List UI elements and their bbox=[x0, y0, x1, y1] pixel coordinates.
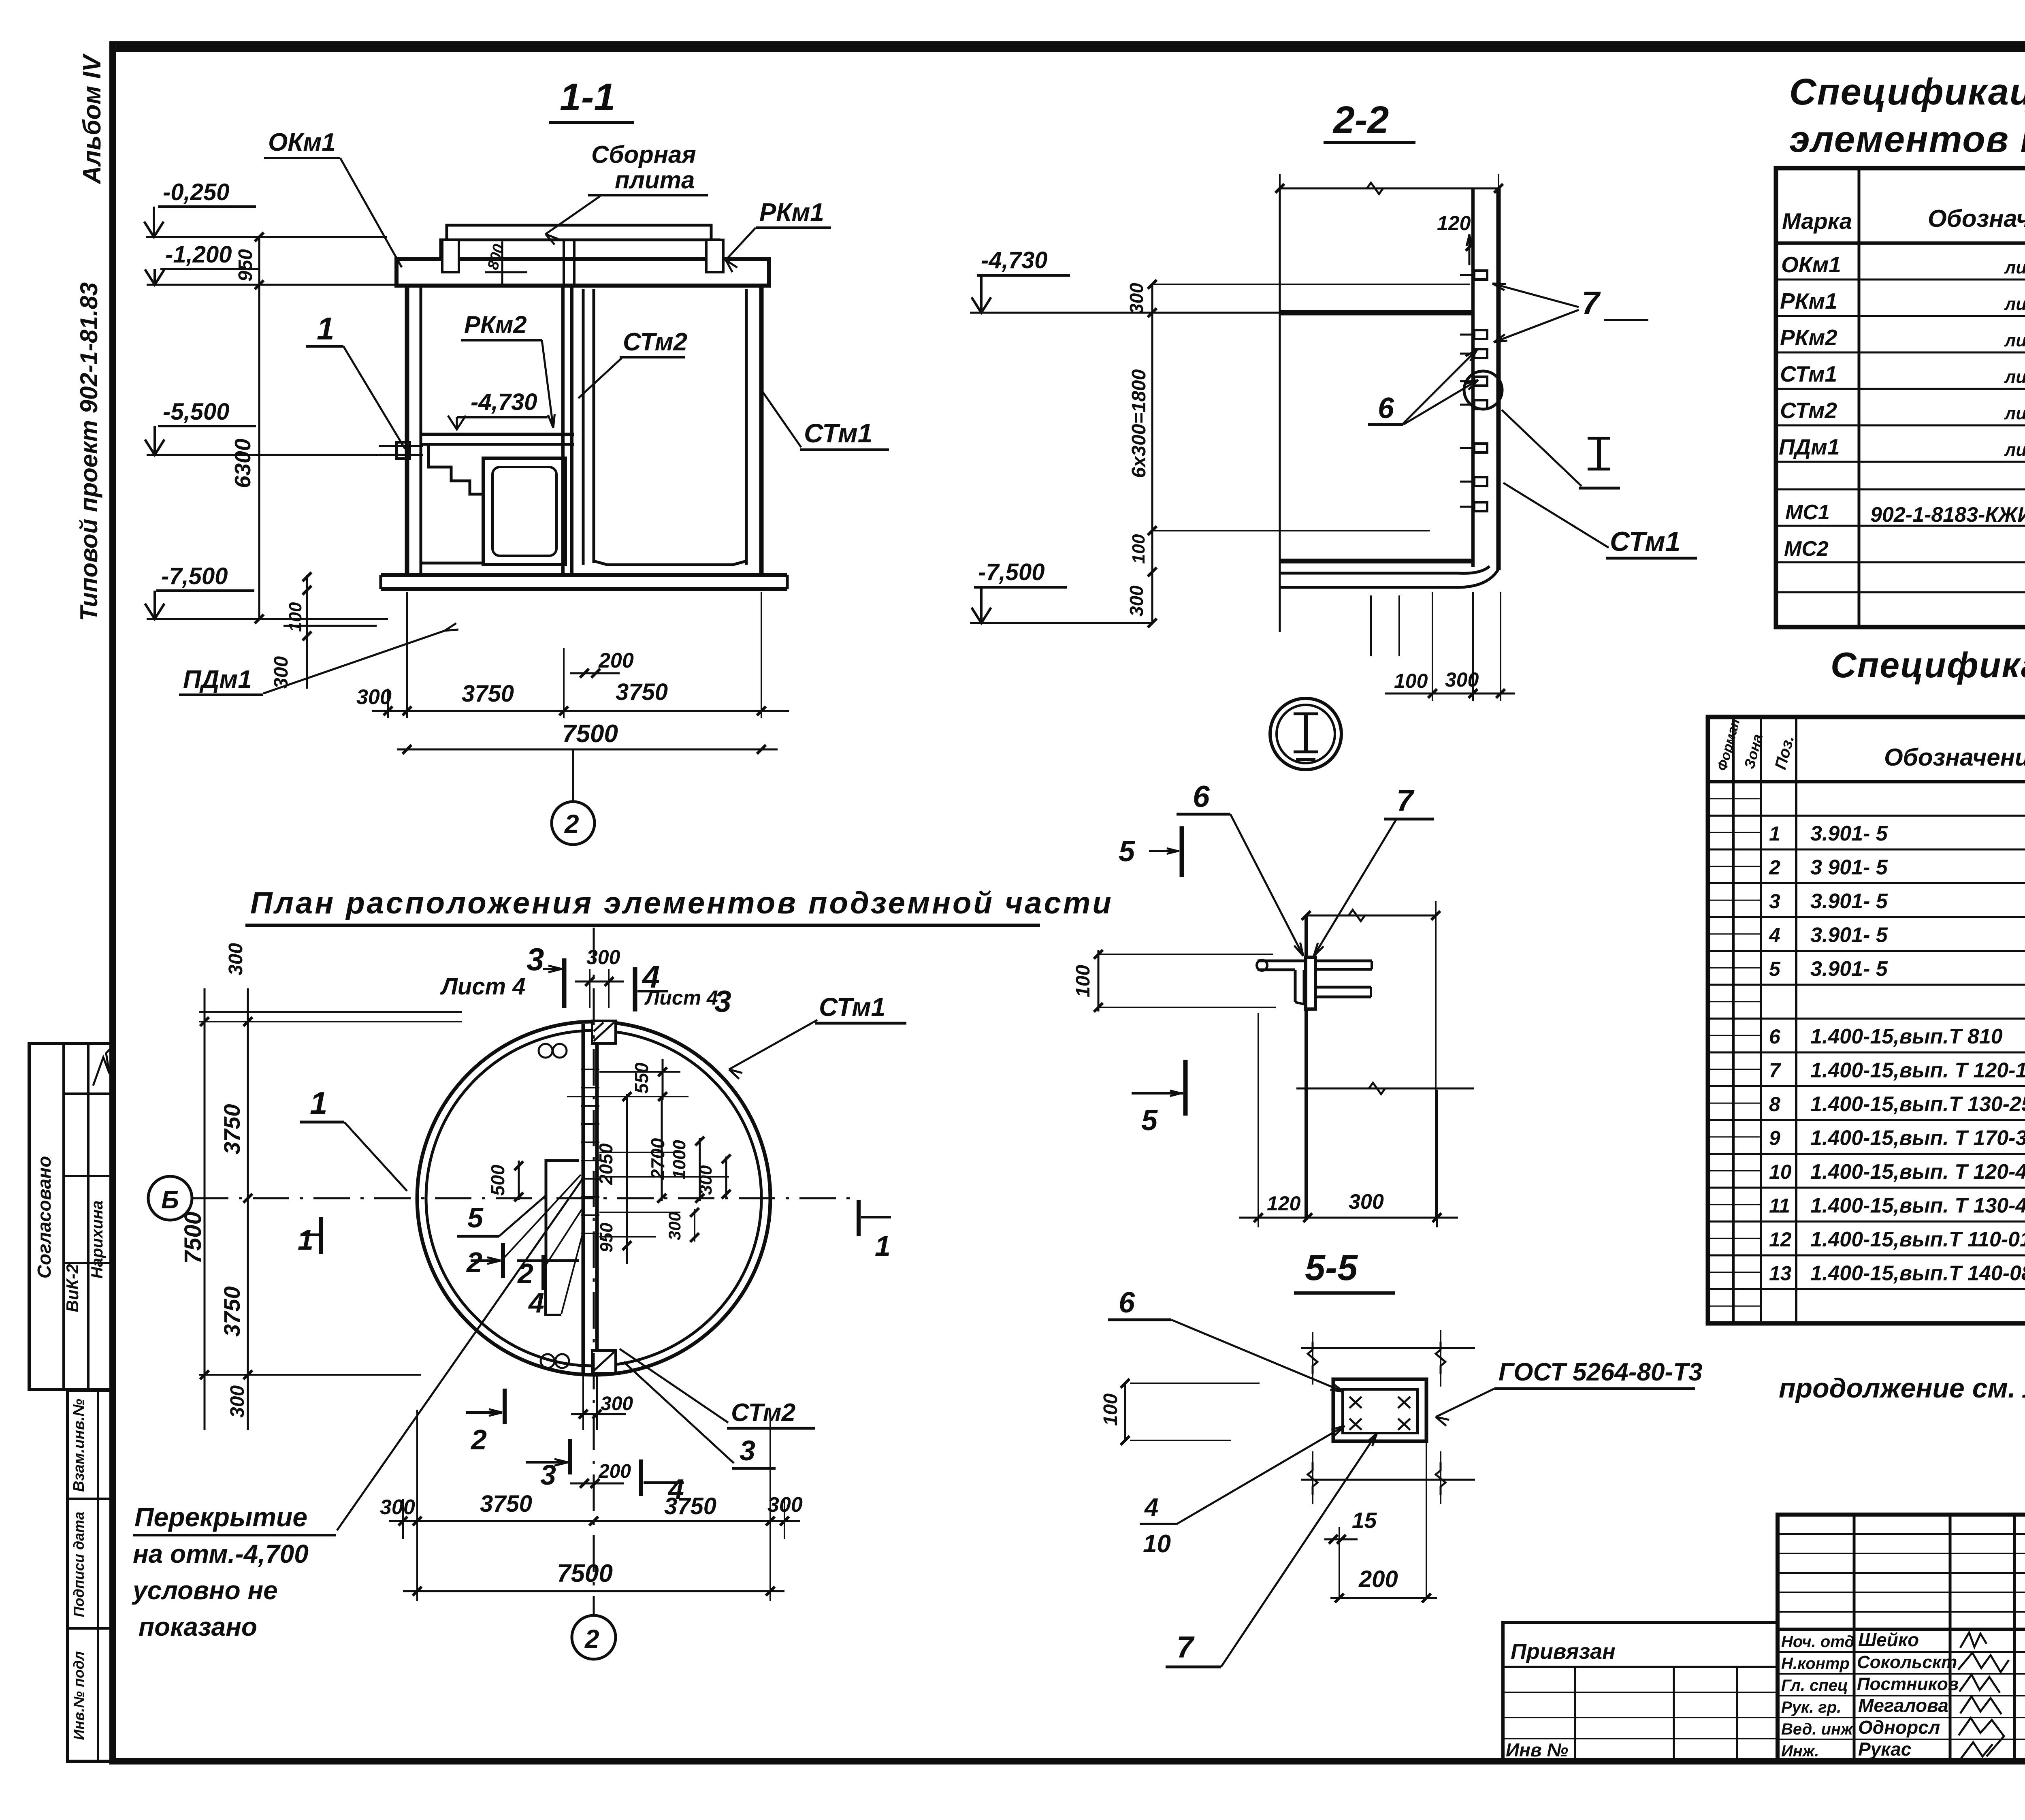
vertical dim 100/300 bottom left bbox=[306, 575, 308, 689]
svg-text:Вед. инж: Вед. инж bbox=[1781, 1720, 1854, 1738]
svg-text:300: 300 bbox=[1349, 1190, 1384, 1214]
svg-text:300: 300 bbox=[586, 946, 620, 969]
svg-text:Обозначение: Обозначение bbox=[1884, 744, 2025, 771]
svg-text:Типовой проект 902-1-81.83: Типовой проект 902-1-81.83 bbox=[75, 282, 102, 621]
svg-text:ОКм1: ОКм1 bbox=[1781, 252, 1841, 277]
svg-text:лист: лист bbox=[2004, 258, 2025, 277]
svg-text:300: 300 bbox=[356, 685, 392, 709]
svg-text:2050: 2050 bbox=[595, 1143, 616, 1185]
plan left dim 3750x2 vertical bbox=[247, 988, 249, 1430]
svg-text:плита: плита bbox=[615, 166, 695, 194]
monolithic ring slab ОКм1/РКм1 bbox=[396, 259, 769, 286]
svg-text:Инж.: Инж. bbox=[1781, 1742, 1819, 1760]
svg-text:200: 200 bbox=[598, 1461, 631, 1482]
svg-text:условно не: условно не bbox=[132, 1576, 278, 1605]
svg-text:8: 8 bbox=[1769, 1093, 1780, 1116]
svg-text:СТм2: СТм2 bbox=[623, 328, 687, 356]
svg-text:1.400-15,вып. Т 120-14: 1.400-15,вып. Т 120-14 bbox=[1810, 1059, 2025, 1082]
plan circle outer wall bbox=[417, 1022, 770, 1375]
svg-text:РКм1: РКм1 bbox=[1780, 288, 1837, 314]
2-2 vertical dim line bbox=[1151, 284, 1153, 623]
2-2 bracket detail circle bbox=[1464, 371, 1502, 409]
svg-text:Привязан: Привязан bbox=[1511, 1639, 1616, 1664]
svg-text:3.901- 5: 3.901- 5 bbox=[1810, 924, 1888, 947]
plan interior dim 550 bbox=[662, 1059, 664, 1100]
svg-text:300: 300 bbox=[601, 1393, 633, 1415]
svg-text:ОКм1: ОКм1 bbox=[268, 128, 336, 156]
5-5 lower frame lines with breaks bbox=[1301, 1479, 1475, 1481]
svg-text:3.901- 5: 3.901- 5 bbox=[1810, 822, 1888, 845]
svg-text:100: 100 bbox=[1394, 670, 1428, 692]
dim 7500 bbox=[397, 749, 778, 751]
right chamber lining bbox=[582, 289, 585, 565]
svg-text:Мегалова: Мегалова bbox=[1858, 1695, 1948, 1716]
svg-text:Согласовано: Согласовано bbox=[34, 1156, 55, 1278]
svg-text:1: 1 bbox=[875, 1230, 891, 1262]
svg-text:6: 6 bbox=[1378, 392, 1394, 425]
plan circle inner wall bbox=[426, 1031, 761, 1366]
svg-text:1: 1 bbox=[298, 1224, 313, 1256]
title block left small rows bbox=[1778, 1533, 2025, 1535]
slab notch right bbox=[706, 240, 723, 272]
plan ledge wall in left chamber bbox=[546, 1161, 579, 1261]
svg-text:2: 2 bbox=[1769, 856, 1780, 879]
svg-text:4: 4 bbox=[528, 1287, 544, 1319]
dim 200 partition bbox=[570, 672, 620, 674]
svg-text:300: 300 bbox=[227, 1385, 248, 1418]
plan dim chain 300 3750 3750 300 bbox=[389, 1520, 800, 1522]
svg-text:Однорсл: Однорсл bbox=[1858, 1717, 1940, 1738]
svg-text:9: 9 bbox=[1769, 1127, 1780, 1150]
svg-text:5: 5 bbox=[1119, 835, 1135, 868]
svg-text:6х300=1800: 6х300=1800 bbox=[1128, 369, 1150, 478]
bottom dim extension lines 1-1 bbox=[406, 592, 408, 718]
pipe sleeve pos.1 through left wall bbox=[379, 445, 423, 447]
svg-text:Б: Б bbox=[161, 1186, 179, 1214]
title block outer bbox=[1778, 1515, 2025, 1761]
svg-text:5: 5 bbox=[1141, 1104, 1158, 1137]
svg-text:2: 2 bbox=[470, 1424, 487, 1455]
svg-text:10: 10 bbox=[1769, 1161, 1792, 1183]
svg-text:СТм1: СТм1 bbox=[804, 418, 872, 448]
svg-text:550: 550 bbox=[631, 1063, 652, 1094]
svg-text:Ноч. отд: Ноч. отд bbox=[1781, 1633, 1854, 1651]
svg-text:Постников: Постников bbox=[1857, 1674, 1959, 1694]
plan partition hatch top bbox=[592, 1021, 616, 1043]
svg-text:Рук. гр.: Рук. гр. bbox=[1781, 1698, 1841, 1716]
svg-text:4: 4 bbox=[1769, 924, 1780, 947]
detail I title circle bbox=[1270, 698, 1341, 770]
svg-text:5: 5 bbox=[1769, 958, 1781, 980]
svg-text:3: 3 bbox=[714, 984, 731, 1018]
wall right СТм1 outer bbox=[759, 286, 764, 577]
plan interior dim 1000 bbox=[699, 1138, 701, 1201]
svg-text:300: 300 bbox=[767, 1493, 803, 1517]
svg-text:-4,730: -4,730 bbox=[981, 247, 1047, 273]
svg-text:300: 300 bbox=[225, 943, 247, 975]
svg-text:Инв.№ подл: Инв.№ подл bbox=[70, 1651, 87, 1740]
title block full line bbox=[1778, 1628, 2025, 1631]
slab notch left bbox=[442, 240, 459, 272]
detail I top dim line bbox=[1306, 915, 1436, 917]
svg-text:6: 6 bbox=[1119, 1287, 1135, 1319]
detail I bottom line with break bbox=[1296, 1088, 1474, 1090]
svg-text:2700: 2700 bbox=[647, 1138, 668, 1180]
svg-text:1.400-15,вып. Т 170-32: 1.400-15,вып. Т 170-32 bbox=[1810, 1127, 2025, 1150]
plan left dim 7500 vertical bbox=[204, 988, 206, 1430]
svg-text:СТм1: СТм1 bbox=[1610, 526, 1680, 557]
svg-text:1000: 1000 bbox=[669, 1140, 689, 1180]
svg-text:РКм2: РКм2 bbox=[1780, 325, 1837, 350]
svg-text:2: 2 bbox=[584, 1624, 599, 1654]
svg-text:3750: 3750 bbox=[616, 679, 668, 705]
svg-text:ГОСТ 5264-80-Т3: ГОСТ 5264-80-Т3 bbox=[1498, 1358, 1703, 1386]
title block signatures bbox=[1960, 1632, 1987, 1648]
right chamber floor bbox=[594, 549, 746, 565]
plan interior dim 500 bbox=[518, 1161, 520, 1200]
plan leaders to partition rungs bbox=[503, 1175, 581, 1259]
svg-text:6: 6 bbox=[1769, 1025, 1781, 1048]
dim 800 slab thickness bbox=[501, 241, 503, 284]
left chamber floor bbox=[421, 562, 483, 565]
svg-text:100: 100 bbox=[1100, 1393, 1121, 1426]
svg-text:элементов подземной части: элементов подземной части bbox=[1789, 119, 2025, 160]
svg-text:-0,250: -0,250 bbox=[163, 179, 229, 205]
svg-text:1.400-15,вып.Т 110-01: 1.400-15,вып.Т 110-01 bbox=[1810, 1228, 2025, 1251]
svg-text:13: 13 bbox=[1769, 1262, 1792, 1285]
plan dim 7500 bbox=[403, 1590, 784, 1592]
svg-text:3: 3 bbox=[540, 1459, 556, 1491]
plan interior dim 300 right bbox=[725, 1156, 727, 1197]
svg-text:902-1-8183-КЖИ-МС1: 902-1-8183-КЖИ-МС1 bbox=[1870, 503, 2025, 527]
plan leader from Перекрытие note bbox=[337, 1178, 583, 1530]
svg-text:План расположения элементов п: План расположения элементов подземной ча… bbox=[250, 886, 1113, 920]
svg-text:7500: 7500 bbox=[557, 1560, 613, 1587]
svg-text:100: 100 bbox=[1072, 965, 1094, 997]
5-5 dim 200 bbox=[1339, 1527, 1340, 1597]
svg-text:2: 2 bbox=[466, 1246, 482, 1278]
svg-text:Альбом IV: Альбом IV bbox=[78, 53, 106, 185]
detail I anchor plate bbox=[1306, 957, 1315, 1009]
svg-text:Лист 4: Лист 4 bbox=[440, 973, 525, 1000]
svg-text:Перекрытие: Перекрытие bbox=[134, 1502, 307, 1532]
plan interior dim 300 small bbox=[694, 1209, 695, 1242]
svg-text:5: 5 bbox=[467, 1202, 484, 1233]
detail I wall line bbox=[1305, 915, 1308, 1218]
svg-text:4: 4 bbox=[1144, 1494, 1158, 1521]
dim chain 300 3750 3750 bbox=[372, 710, 789, 712]
wall right inner lining bbox=[745, 289, 748, 565]
svg-text:3 901- 5: 3 901- 5 bbox=[1810, 856, 1888, 879]
2-2 ext lines below floor bbox=[1370, 595, 1372, 656]
svg-text:СТм2: СТм2 bbox=[1780, 398, 1837, 423]
svg-text:ВиК-2: ВиК-2 bbox=[63, 1264, 82, 1312]
plan anchor loops top bbox=[539, 1044, 552, 1058]
svg-text:-5,500: -5,500 bbox=[163, 399, 229, 425]
bottom plate ПДм1 bbox=[381, 573, 787, 577]
svg-text:3: 3 bbox=[1769, 890, 1780, 913]
svg-text:300: 300 bbox=[380, 1496, 415, 1519]
svg-text:Н.контр: Н.контр bbox=[1781, 1655, 1850, 1673]
svg-text:7: 7 bbox=[1769, 1059, 1781, 1082]
2-2 top dim line with break bbox=[1280, 188, 1498, 190]
plan interior dim 950 bbox=[626, 1246, 628, 1264]
svg-text:РКм1: РКм1 bbox=[759, 198, 824, 226]
plan interior dim 2050 bbox=[626, 1094, 628, 1250]
svg-text:Подписи дата: Подписи дата bbox=[70, 1512, 87, 1617]
svg-text:300: 300 bbox=[696, 1165, 716, 1195]
title block role rows bbox=[1778, 1651, 2025, 1653]
wall left СТм1 outer bbox=[405, 286, 409, 577]
detail mark I of 2-2 bbox=[1597, 438, 1601, 469]
svg-text:1.400-15,вып.Т 130-25: 1.400-15,вып.Т 130-25 bbox=[1810, 1092, 2025, 1116]
plan axis circle 2 bbox=[572, 1615, 616, 1659]
svg-text:на отм.-4,700: на отм.-4,700 bbox=[133, 1539, 309, 1568]
svg-text:1.400-15,вып. Т 120-45: 1.400-15,вып. Т 120-45 bbox=[1810, 1160, 2025, 1184]
detail I rod elbow bbox=[1294, 970, 1297, 1002]
svg-text:1.400-15,вып.Т 810: 1.400-15,вып.Т 810 bbox=[1810, 1025, 2003, 1048]
plan partition hatch bottom bbox=[592, 1351, 616, 1373]
svg-text:7500: 7500 bbox=[180, 1212, 206, 1264]
2-2 wall СТм1 outer line bbox=[1496, 188, 1501, 570]
svg-text:200: 200 bbox=[598, 649, 634, 672]
svg-text:лист: лист bbox=[2004, 367, 2025, 387]
svg-text:7: 7 bbox=[1396, 783, 1415, 817]
wall left inner lining bbox=[420, 286, 422, 575]
svg-text:6: 6 bbox=[1193, 779, 1210, 813]
svg-text:300: 300 bbox=[665, 1212, 684, 1240]
sump box inner bbox=[492, 467, 556, 556]
vertical dim line 950/6300 bbox=[258, 237, 260, 619]
plan leaders to СТм2 bbox=[620, 1349, 728, 1423]
plan partition rungs bbox=[581, 1069, 599, 1070]
5-5 channel outer bbox=[1333, 1379, 1426, 1441]
top slab upper band bbox=[441, 240, 719, 259]
svg-text:300: 300 bbox=[1126, 585, 1147, 617]
svg-text:100: 100 bbox=[286, 602, 305, 632]
svg-text:1.400-15,вып. Т 130-46: 1.400-15,вып. Т 130-46 bbox=[1810, 1194, 2025, 1218]
svg-text:2-2: 2-2 bbox=[1332, 98, 1389, 141]
svg-text:лист: лист bbox=[2004, 440, 2025, 460]
svg-text:300: 300 bbox=[1126, 283, 1147, 314]
svg-text:Нарихина: Нарихина bbox=[88, 1200, 106, 1278]
svg-text:лист: лист bbox=[2004, 294, 2025, 314]
svg-text:Взам.инв.№: Взам.инв.№ bbox=[70, 1399, 87, 1492]
svg-text:100: 100 bbox=[1129, 534, 1149, 564]
plan anchor loops bottom bbox=[541, 1354, 554, 1368]
detail I prongs bbox=[1315, 960, 1372, 962]
svg-text:-7,500: -7,500 bbox=[978, 559, 1044, 585]
svg-text:1-1: 1-1 bbox=[560, 76, 615, 119]
plan ext lines top/bottom bbox=[199, 1021, 462, 1022]
svg-text:-7,500: -7,500 bbox=[161, 563, 228, 589]
svg-text:Спецификация стен СТм1, СТм: Спецификация стен СТм1, СТм2 bbox=[1831, 645, 2025, 685]
svg-text:3.901- 5: 3.901- 5 bbox=[1810, 957, 1888, 981]
detail I right ext line bbox=[1435, 901, 1437, 1218]
svg-text:3750: 3750 bbox=[664, 1493, 716, 1519]
plan vertical axis bbox=[593, 928, 595, 1614]
svg-text:2: 2 bbox=[564, 809, 579, 839]
column axis circle 2 of section 1-1 bbox=[572, 749, 574, 801]
svg-text:лист: лист bbox=[2004, 331, 2025, 350]
precast slab (Сборная плита) bbox=[447, 225, 711, 240]
svg-text:Сборная: Сборная bbox=[591, 141, 696, 168]
svg-text:1: 1 bbox=[310, 1085, 327, 1121]
svg-text:120: 120 bbox=[1437, 212, 1471, 235]
svg-text:Шейко: Шейко bbox=[1858, 1629, 1919, 1650]
2-2 bottom dims 100 300 bbox=[1432, 592, 1433, 701]
Привязан box bbox=[1503, 1622, 1778, 1761]
table 2 grid bbox=[1708, 717, 2025, 1323]
svg-text:Гл. спец: Гл. спец bbox=[1781, 1677, 1848, 1694]
stamp signature squiggle bbox=[93, 1047, 112, 1086]
svg-text:3750: 3750 bbox=[462, 681, 514, 707]
svg-text:10: 10 bbox=[1143, 1530, 1171, 1558]
svg-text:7500: 7500 bbox=[562, 720, 618, 748]
stamp Согласовано box bbox=[29, 1043, 113, 1389]
svg-text:продолжение см. лист 7: продолжение см. лист 7 bbox=[1779, 1373, 2025, 1404]
svg-text:СТм1: СТм1 bbox=[1780, 361, 1837, 386]
svg-text:6300: 6300 bbox=[230, 438, 255, 488]
svg-text:Марка: Марка bbox=[1782, 208, 1852, 234]
svg-text:11: 11 bbox=[1769, 1195, 1790, 1217]
title block vertical lines bbox=[1853, 1515, 1856, 1761]
svg-text:15: 15 bbox=[1352, 1508, 1377, 1533]
svg-text:ПДм1: ПДм1 bbox=[1779, 434, 1840, 459]
svg-text:3750: 3750 bbox=[219, 1286, 245, 1337]
detail I bottom dims 120 300 bbox=[1258, 1013, 1259, 1227]
svg-text:200: 200 bbox=[1358, 1566, 1398, 1592]
svg-text:Рукас: Рукас bbox=[1858, 1739, 1911, 1760]
2-2 left edge line bbox=[1279, 188, 1281, 632]
svg-text:5-5: 5-5 bbox=[1305, 1248, 1358, 1288]
sump box outer bbox=[483, 458, 565, 565]
2-2 bottom slab lines bbox=[1280, 572, 1458, 575]
svg-text:Инв №: Инв № bbox=[1506, 1739, 1568, 1760]
pit steps bbox=[428, 444, 483, 494]
table 1 grid bbox=[1776, 168, 2025, 627]
svg-text:500: 500 bbox=[487, 1165, 508, 1196]
table 2 half-row lines in narrow columns bbox=[1708, 798, 1761, 799]
svg-text:Обозначение: Обозначение bbox=[1928, 205, 2025, 232]
svg-text:-1,200: -1,200 bbox=[165, 241, 232, 268]
plan interior dim 2700 bbox=[661, 1100, 663, 1201]
svg-text:3: 3 bbox=[740, 1435, 755, 1466]
svg-text:МС2: МС2 bbox=[1784, 537, 1829, 561]
slab joint lines bbox=[563, 240, 565, 286]
5-5 weld X marks bbox=[1349, 1397, 1362, 1408]
svg-text:показано: показано bbox=[139, 1612, 257, 1641]
detail I anchor rod bbox=[1258, 960, 1306, 962]
svg-text:Спецификация к схеме распол: Спецификация к схеме расположения bbox=[1789, 71, 2025, 113]
svg-text:7: 7 bbox=[1177, 1630, 1195, 1664]
svg-text:3750: 3750 bbox=[219, 1104, 245, 1154]
svg-text:1.400-15,вып.Т 140-08: 1.400-15,вып.Т 140-08 bbox=[1810, 1262, 2025, 1285]
svg-text:-4,730: -4,730 bbox=[471, 389, 537, 415]
svg-text:7: 7 bbox=[1582, 285, 1601, 321]
2-2 bottom floor bbox=[1280, 559, 1473, 563]
svg-text:950: 950 bbox=[597, 1223, 616, 1252]
plan interior dim ext lines bbox=[599, 1071, 680, 1073]
detail I dim 100 bbox=[1098, 954, 1273, 955]
svg-text:120: 120 bbox=[1267, 1192, 1301, 1215]
svg-text:ПДм1: ПДм1 bbox=[183, 666, 252, 693]
plan bottom dim extension lines bbox=[416, 1410, 418, 1601]
svg-text:СТм2: СТм2 bbox=[731, 1399, 795, 1427]
svg-text:МС1: МС1 bbox=[1785, 501, 1830, 524]
svg-text:3750: 3750 bbox=[480, 1491, 532, 1517]
РКм2 slab at -4.730 bbox=[421, 433, 574, 436]
svg-text:950: 950 bbox=[235, 249, 256, 282]
svg-text:12: 12 bbox=[1769, 1228, 1792, 1251]
svg-text:Сокольскт: Сокольскт bbox=[1857, 1652, 1957, 1672]
5-5 dim 100 left bbox=[1130, 1383, 1260, 1384]
plan partition wall bbox=[582, 1024, 585, 1373]
svg-text:СТм1: СТм1 bbox=[819, 992, 885, 1022]
svg-text:лист: лист bbox=[2004, 403, 2025, 423]
svg-text:1: 1 bbox=[1769, 822, 1780, 845]
svg-text:300: 300 bbox=[1445, 668, 1479, 691]
5-5 upper frame lines with breaks bbox=[1301, 1347, 1475, 1349]
svg-text:1: 1 bbox=[317, 311, 334, 346]
5-5 channel inner bbox=[1343, 1389, 1417, 1433]
plan axis Б bbox=[148, 1176, 192, 1220]
svg-text:3.901- 5: 3.901- 5 bbox=[1810, 890, 1888, 913]
svg-text:Лист 4: Лист 4 bbox=[644, 986, 718, 1009]
svg-text:РКм2: РКм2 bbox=[464, 311, 527, 338]
2-2 wall brackets pos 7 bbox=[1474, 271, 1487, 280]
stamp Взам.инв box bbox=[68, 1390, 113, 1761]
2-2 wall СТм1 inner line bbox=[1471, 188, 1475, 567]
partition wall СТм2 bbox=[561, 286, 565, 575]
2-2 floor slab at -4,730 bbox=[1280, 310, 1473, 316]
svg-text:3: 3 bbox=[526, 941, 544, 977]
